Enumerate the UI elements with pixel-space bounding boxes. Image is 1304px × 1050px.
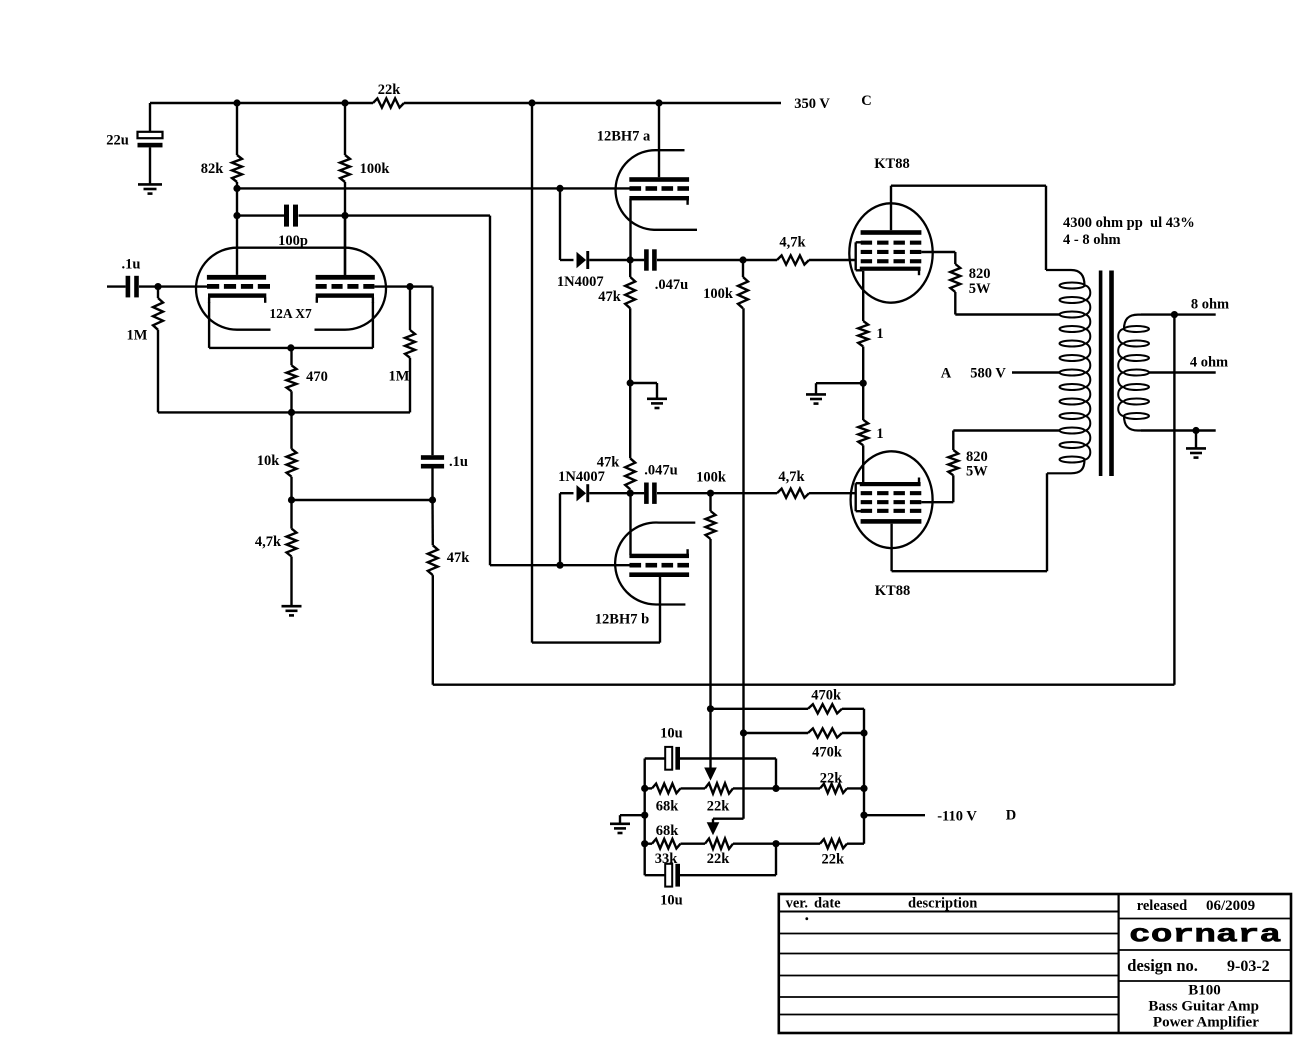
svg-text:10u: 10u xyxy=(660,726,683,742)
resistor 470k (row 1) xyxy=(711,688,865,714)
wire KT88 upper plate to OPT xyxy=(891,186,1046,270)
node KT88 cathodes junction xyxy=(816,380,867,394)
label KT88 (lower) xyxy=(875,583,910,599)
diode 1N4007 (lower) xyxy=(558,469,644,502)
wire input to 12AX7 left grid xyxy=(158,285,207,287)
title block design no. row xyxy=(1119,956,1291,981)
svg-text:10k: 10k xyxy=(257,453,281,469)
tube KT88 upper plate xyxy=(861,186,922,235)
tube 12BH7a plate xyxy=(629,103,689,182)
wire bias right rail xyxy=(860,709,867,844)
wire secondary common xyxy=(1141,427,1216,448)
transformer OPT core xyxy=(1099,271,1114,477)
svg-text:470: 470 xyxy=(306,369,328,385)
resistor 82k xyxy=(201,103,242,188)
svg-text:.1u: .1u xyxy=(122,256,141,272)
svg-text:4 ohm: 4 ohm xyxy=(1190,354,1228,370)
label 12BH7 a xyxy=(597,129,651,145)
wire bias ground stub xyxy=(620,815,645,823)
resistor 820 5W (upper screen) xyxy=(950,264,991,315)
resistor 100k (upper grid) xyxy=(703,260,748,308)
tube KT88 upper envelope xyxy=(849,203,932,302)
node C xyxy=(861,93,871,109)
tube 12AX7 left triode cathode xyxy=(208,293,266,348)
wire 1M bottom rail (y=412) xyxy=(158,330,410,416)
title block revision table xyxy=(779,896,1119,1015)
potentiometer 22k (row 2) xyxy=(705,839,820,868)
label KT88 (upper) xyxy=(874,156,909,172)
svg-text:12BH7 b: 12BH7 b xyxy=(595,611,649,627)
capacitor .1u (input) xyxy=(107,256,158,297)
pot wiper arrow 1 xyxy=(704,768,717,781)
wire 8 ohm output xyxy=(1141,297,1229,319)
svg-text:22k: 22k xyxy=(707,798,731,814)
tube KT88 lower grid bracket xyxy=(856,483,862,511)
label 12BH7 b xyxy=(595,611,649,627)
logo cornara xyxy=(1119,921,1291,950)
wire 12BH7a grid feed down xyxy=(560,188,574,260)
pot wiper arrow 2 xyxy=(707,822,720,835)
tube 12BH7b cathode xyxy=(629,493,689,558)
node A / label 580 V center tap xyxy=(941,365,1060,381)
svg-text:350 V: 350 V xyxy=(794,96,830,112)
tube 12BH7a grid xyxy=(560,186,689,191)
svg-text:820: 820 xyxy=(969,266,991,282)
wire 100k upper to bias pot 2 xyxy=(713,308,747,824)
svg-text:12A X7: 12A X7 xyxy=(269,306,312,321)
capacitor 100p (between plate nodes) xyxy=(233,188,348,249)
wire 12AX7 right plate node to 12BH7b grid feed xyxy=(345,216,560,566)
resistor 22k (row 2 right) xyxy=(820,839,864,868)
svg-text:released: released xyxy=(1137,898,1187,914)
resistor 47k (lower) xyxy=(597,383,635,493)
wire bias left rail xyxy=(641,759,648,876)
tube 12BH7b plate xyxy=(629,572,689,642)
svg-text:68k: 68k xyxy=(656,798,680,814)
tube KT88 lower grids xyxy=(861,491,922,513)
svg-text:47k: 47k xyxy=(598,289,622,305)
ground (12BH7 cathode resistors) xyxy=(647,399,667,408)
svg-text:470k: 470k xyxy=(812,745,843,761)
svg-text:5W: 5W xyxy=(966,463,988,479)
svg-text:06/2009: 06/2009 xyxy=(1206,898,1255,914)
svg-text:8 ohm: 8 ohm xyxy=(1191,297,1229,313)
svg-text:B100: B100 xyxy=(1188,983,1221,999)
svg-text:22k: 22k xyxy=(707,851,731,867)
label 350 V xyxy=(794,96,830,112)
svg-text:68k: 68k xyxy=(656,823,680,839)
wire B+ 350V top rail right segment xyxy=(404,102,781,104)
tube 12AX7 right triode cathode xyxy=(316,293,374,348)
tube 12AX7 right triode plate xyxy=(316,216,375,280)
tube KT88 upper grids xyxy=(861,241,922,264)
wire upper screen to OPT UL tap xyxy=(955,313,1059,315)
ground (speaker common) xyxy=(1186,448,1206,457)
resistor 68k 33k (row 2) xyxy=(645,823,705,867)
node 47k ground junction xyxy=(627,379,657,398)
title block frame xyxy=(779,894,1291,1033)
wire KT88 lower plate to OPT xyxy=(892,473,1047,571)
resistor 4,7k (lower grid stopper) xyxy=(777,469,856,498)
ground (below 4,7k) xyxy=(282,606,302,615)
svg-text:470k: 470k xyxy=(811,688,842,704)
wire 100k lower to bias pot 1 xyxy=(707,539,714,770)
tube 12AX7 envelope xyxy=(196,248,386,335)
tube 12AX7 left triode plate xyxy=(207,216,266,280)
svg-text:KT88: KT88 xyxy=(874,156,909,172)
capacitor 10u (top) xyxy=(645,726,776,789)
resistor 4,7k (tail) xyxy=(255,500,297,606)
svg-text:design no.: design no. xyxy=(1127,956,1198,975)
svg-text:100k: 100k xyxy=(360,161,391,177)
node .047u to 100k junction (lower) xyxy=(707,490,714,497)
svg-text:12BH7 a: 12BH7 a xyxy=(597,129,651,145)
node 12BH7a cathode junction xyxy=(627,256,634,263)
transformer OPT secondary winding xyxy=(1118,315,1149,431)
resistor 4,7k (upper grid stopper) xyxy=(777,234,856,264)
resistor 470 (cathode) xyxy=(287,348,328,413)
ground (bias network) xyxy=(610,824,630,833)
wire KT88 upper screen lead xyxy=(921,252,955,264)
svg-text:1N4007: 1N4007 xyxy=(558,469,605,485)
wire 12AX7 cathode rail xyxy=(209,344,373,351)
resistor 47k (upper) xyxy=(598,260,635,383)
node 10k / 4.7k junction xyxy=(288,496,436,503)
svg-text:1M: 1M xyxy=(389,368,410,384)
tube KT88 lower plate xyxy=(861,519,922,571)
svg-text:4300 ohm pp ul 43%: 4300 ohm pp ul 43% xyxy=(1063,215,1195,231)
tube 12AX7 left triode grid xyxy=(207,284,270,289)
node 350V rail junction dots xyxy=(233,99,662,106)
wire 4 ohm output xyxy=(1149,354,1228,372)
tube 12BH7a cathode xyxy=(629,196,689,260)
svg-text:C: C xyxy=(861,93,871,109)
wire 12AX7 right grid to .1u/1M node xyxy=(374,283,432,290)
resistor 1M (input grid leak) xyxy=(127,287,163,344)
svg-text:description: description xyxy=(908,896,977,912)
node .047u to 100k junction (upper) xyxy=(739,256,746,263)
diode 1N4007 (upper) xyxy=(557,251,644,290)
svg-text:22k: 22k xyxy=(822,852,846,868)
label 12AX7 xyxy=(269,306,312,321)
resistor 470k (row 2) xyxy=(744,728,868,760)
svg-text:KT88: KT88 xyxy=(875,583,910,599)
wire -110 V supply xyxy=(864,808,977,824)
svg-text:.047u: .047u xyxy=(655,277,688,293)
svg-text:1: 1 xyxy=(876,426,883,442)
svg-text:9-03-2: 9-03-2 xyxy=(1227,958,1270,975)
resistor 100k (12AX7 right plate load) xyxy=(340,103,390,275)
node 12BH7b cathode junction xyxy=(627,490,634,497)
wire lower screen to OPT UL tap xyxy=(953,429,1059,431)
svg-text:date: date xyxy=(814,896,841,912)
capacitor 10u (bottom) xyxy=(645,844,776,909)
svg-text:22k: 22k xyxy=(378,82,402,98)
svg-text:Bass Guitar Amp: Bass Guitar Amp xyxy=(1148,999,1259,1015)
wire 82k bottom node to 12BH7a grid xyxy=(233,185,563,192)
wire 12BH7b plate to B+ rail xyxy=(532,103,660,643)
svg-text:4,7k: 4,7k xyxy=(255,534,282,550)
capacitor .1u (feedback) xyxy=(421,287,468,500)
svg-text:-110 V: -110 V xyxy=(937,808,977,824)
svg-text:.047u: .047u xyxy=(644,462,677,478)
capacitor .047u (upper) xyxy=(644,249,777,292)
svg-text:cornara: cornara xyxy=(1129,921,1281,949)
ground (KT88 cathodes) xyxy=(806,394,826,403)
svg-text:A: A xyxy=(941,365,952,381)
svg-text:100k: 100k xyxy=(696,469,727,485)
svg-text:5W: 5W xyxy=(969,281,991,297)
svg-text:22k: 22k xyxy=(820,771,844,787)
tube 12AX7 right triode grid xyxy=(316,284,375,289)
resistor 10k xyxy=(257,412,297,500)
label OPT impedance xyxy=(1063,215,1195,248)
tube 12BH7a envelope xyxy=(616,150,697,230)
svg-text:100k: 100k xyxy=(703,286,734,302)
svg-text:82k: 82k xyxy=(201,161,225,177)
svg-text:1: 1 xyxy=(876,326,883,342)
wire KT88 lower screen lead xyxy=(921,475,953,502)
potentiometer 22k (row 1) xyxy=(705,783,820,814)
tube KT88 upper grid bracket xyxy=(856,242,862,270)
svg-text:.1u: .1u xyxy=(449,454,468,470)
svg-text:22u: 22u xyxy=(106,133,129,149)
tube KT88 upper cathode xyxy=(860,267,921,321)
resistor 100k (lower grid) xyxy=(696,469,727,539)
resistor 1 (lower cathode) xyxy=(858,420,883,483)
resistor 47k (feedback) xyxy=(428,500,470,685)
svg-text:1N4007: 1N4007 xyxy=(557,274,604,290)
svg-text:4,7k: 4,7k xyxy=(778,469,805,485)
wire feedback from 8 ohm tap xyxy=(433,315,1175,685)
svg-text:47k: 47k xyxy=(447,550,471,566)
resistor 22k (rail) xyxy=(373,82,404,108)
resistor 820 5W (lower screen) xyxy=(948,431,988,480)
svg-text:D: D xyxy=(1006,807,1016,823)
tube KT88 lower cathode xyxy=(860,478,921,487)
svg-text:4 - 8 ohm: 4 - 8 ohm xyxy=(1063,232,1121,248)
capacitor 22u (filter) xyxy=(106,103,162,184)
title block released row xyxy=(1119,898,1291,919)
resistor 1 (upper cathode) xyxy=(858,321,883,420)
svg-text:580 V: 580 V xyxy=(970,365,1006,381)
node D xyxy=(1006,807,1016,823)
node 12BH7b grid junction xyxy=(556,562,563,569)
capacitor .047u (lower) xyxy=(644,462,777,504)
resistor 68k (row 1) xyxy=(645,784,705,815)
wire B+ 350V top rail left segment xyxy=(150,102,373,104)
svg-text:Power Amplifier: Power Amplifier xyxy=(1153,1015,1259,1031)
resistor 1M (right) xyxy=(389,287,415,385)
wire 12BH7b grid riser xyxy=(560,493,630,565)
svg-text:4,7k: 4,7k xyxy=(779,234,806,250)
svg-text:1M: 1M xyxy=(127,327,148,343)
tube KT88 lower envelope xyxy=(851,451,933,548)
node input grid junction xyxy=(154,283,161,290)
tube 12BH7b envelope xyxy=(615,523,695,605)
tube 12BH7b grid xyxy=(630,563,690,568)
svg-text:ver.: ver. xyxy=(786,896,808,912)
title block project name xyxy=(1148,983,1259,1031)
svg-text:10u: 10u xyxy=(660,893,683,909)
resistor 22k (row 1 right) xyxy=(820,771,864,794)
ground (below 22u) xyxy=(138,184,162,193)
transformer OPT primary winding xyxy=(1046,270,1090,473)
